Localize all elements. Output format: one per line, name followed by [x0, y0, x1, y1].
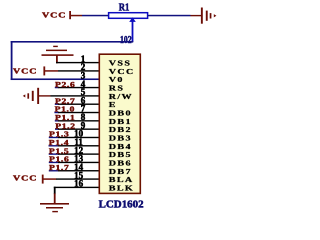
wire ground to pin 5 [51, 95, 100, 96]
svg-text:BLA: BLA [109, 175, 134, 183]
svg-text:P1.1: P1.1 [55, 113, 75, 122]
wire pin 10 [49, 137, 59, 138]
wire VCC to pin 15 [56, 178, 99, 179]
wire R1 wiper to pin 3 V0: horizontal run [11, 41, 134, 43]
svg-text:DB0: DB0 [109, 109, 132, 117]
wire pin 13 [49, 162, 59, 163]
svg-text:E: E [109, 101, 117, 109]
svg-text:VSS: VSS [109, 59, 132, 67]
svg-text:102: 102 [120, 35, 132, 46]
ground (bottom, earth style) [40, 193, 69, 212]
svg-text:LCD1602: LCD1602 [99, 198, 144, 210]
wire pin 4 [55, 87, 59, 88]
wire pin 7 [54, 112, 58, 113]
wire R1 wiper to pin 3 V0: left vertical run [11, 41, 13, 80]
svg-text:P1.3: P1.3 [49, 130, 69, 139]
wire pin 6 [55, 104, 59, 105]
svg-text:R/W: R/W [109, 92, 133, 100]
svg-text:P1.4: P1.4 [49, 138, 70, 147]
power port VCC (pin 15) [13, 174, 56, 184]
wire pin 11 [49, 145, 59, 146]
ground at pin 5 (bar style, pointing left) [23, 88, 51, 104]
IC LCD1602 module body [99, 54, 140, 193]
wire R1 right terminal to ground [148, 15, 191, 16]
wire pin 16 to bottom ground [54, 187, 99, 195]
svg-text:VCC: VCC [13, 174, 37, 183]
svg-text:DB1: DB1 [109, 117, 132, 125]
svg-text:R1: R1 [119, 3, 130, 14]
svg-text:DB3: DB3 [109, 134, 132, 142]
ground (top right, bar style) [191, 8, 217, 24]
svg-text:P1.0: P1.0 [55, 105, 75, 114]
power port VCC (pin 2) [13, 66, 58, 75]
wire pin 8 [55, 120, 59, 121]
wire VCC to pin 2 [58, 70, 99, 71]
svg-text:P2.6: P2.6 [55, 80, 75, 89]
svg-text:BLK: BLK [109, 184, 134, 192]
wire pin 9 [55, 128, 59, 129]
svg-text:VCC: VCC [109, 67, 135, 75]
svg-text:P1.6: P1.6 [49, 155, 69, 164]
svg-text:RS: RS [109, 84, 125, 92]
wire pin 3 V0 horizontal [11, 78, 99, 80]
svg-text:DB6: DB6 [109, 159, 132, 167]
wire pin 14 [49, 170, 59, 171]
svg-text:V0: V0 [109, 76, 124, 84]
svg-text:16: 16 [74, 179, 84, 189]
wire pin 12 [49, 153, 59, 154]
svg-text:P1.5: P1.5 [49, 146, 69, 155]
power port VCC (top rail) [42, 11, 82, 20]
wire ground to pin 1 [56, 62, 99, 63]
svg-text:DB5: DB5 [109, 150, 132, 158]
svg-text:DB7: DB7 [109, 167, 132, 175]
svg-text:P1.2: P1.2 [55, 121, 75, 130]
wire VCC to R1 left terminal [82, 15, 108, 16]
svg-text:VCC: VCC [42, 11, 66, 20]
svg-text:P2.7: P2.7 [55, 96, 76, 105]
ground at pin 1 VSS (earth bars) [42, 46, 74, 64]
svg-text:DB4: DB4 [109, 142, 132, 150]
potentiometer R1 [109, 3, 148, 43]
svg-text:DB2: DB2 [109, 125, 132, 133]
svg-text:P1.7: P1.7 [49, 163, 70, 172]
svg-text:VCC: VCC [13, 66, 37, 75]
